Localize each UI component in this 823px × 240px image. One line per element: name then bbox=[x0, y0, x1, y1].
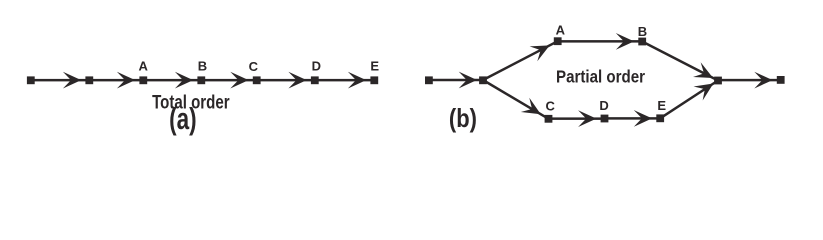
svg-text:C: C bbox=[546, 99, 556, 114]
wire b B-conv bbox=[642, 40, 719, 81]
node a-A bbox=[139, 76, 147, 84]
arrowhead a5 bbox=[288, 72, 306, 89]
node b-B bbox=[638, 38, 646, 46]
svg-text:Partial order: Partial order bbox=[556, 66, 645, 86]
svg-text:B: B bbox=[198, 59, 207, 74]
node b-final bbox=[777, 76, 785, 84]
wire b junction-A bbox=[482, 40, 558, 81]
node a-E bbox=[370, 76, 378, 84]
wire b A-B bbox=[558, 40, 643, 43]
node a-D bbox=[311, 76, 319, 84]
arrowhead b into conv from E bbox=[694, 77, 718, 101]
wire b junction-C bbox=[482, 79, 549, 120]
node b-junction bbox=[479, 76, 487, 84]
node a-1 bbox=[27, 76, 35, 84]
node a-C bbox=[253, 76, 261, 84]
node b-A bbox=[554, 37, 562, 45]
arrowhead a3 bbox=[175, 72, 193, 89]
arrowhead b into E bbox=[634, 110, 652, 127]
svg-text:C: C bbox=[249, 59, 259, 74]
svg-text:A: A bbox=[139, 59, 149, 74]
wire b E-conv bbox=[660, 79, 719, 119]
node b-E bbox=[656, 114, 664, 122]
svg-text:B: B bbox=[638, 24, 647, 39]
arrowhead a2 bbox=[117, 72, 135, 89]
svg-text:E: E bbox=[657, 98, 666, 113]
node b-D bbox=[601, 115, 609, 123]
wire (a) main line bbox=[31, 79, 375, 82]
arrowhead b into conv from B bbox=[693, 62, 717, 85]
node b-conv bbox=[714, 77, 722, 85]
arrowhead b into A bbox=[530, 38, 554, 61]
node b-start bbox=[425, 76, 433, 84]
arrowhead a6 bbox=[348, 72, 366, 89]
node a-B bbox=[197, 76, 205, 84]
wire b D-E bbox=[605, 117, 661, 120]
node a-2 bbox=[85, 76, 93, 84]
arrowhead b into D bbox=[578, 110, 596, 127]
arrowhead b into B bbox=[616, 33, 634, 50]
svg-text:(a): (a) bbox=[169, 101, 197, 136]
arrowhead b into final bbox=[754, 72, 772, 89]
wire b conv-final bbox=[718, 79, 781, 82]
svg-text:E: E bbox=[370, 59, 379, 74]
arrowhead b into C bbox=[521, 98, 545, 122]
arrowhead a4 bbox=[230, 72, 248, 89]
wire b C-D bbox=[549, 117, 605, 120]
node b-C bbox=[545, 115, 553, 123]
wire b start-junction bbox=[429, 79, 483, 82]
svg-text:D: D bbox=[599, 98, 608, 113]
arrowhead b into junction bbox=[459, 72, 477, 89]
arrowhead a1 bbox=[63, 72, 81, 89]
svg-text:D: D bbox=[312, 59, 321, 74]
svg-text:A: A bbox=[556, 23, 566, 38]
svg-text:(b): (b) bbox=[449, 103, 477, 133]
